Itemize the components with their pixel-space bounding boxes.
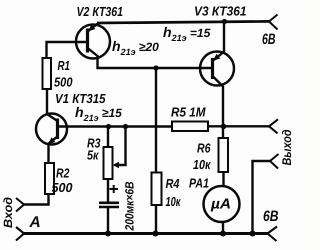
- label R6 10k: [193, 141, 212, 173]
- node capacitor rail junction: [105, 231, 111, 237]
- label V2 KT361: [77, 4, 124, 19]
- transistor V2: [76, 23, 110, 59]
- node V3 emitter junction: [222, 19, 227, 24]
- svg-text:Выход: Выход: [280, 129, 294, 165]
- label Vhod: [1, 197, 15, 228]
- terminal input common: [16, 227, 24, 241]
- svg-text:R1: R1: [58, 58, 71, 73]
- node meter rail junction: [220, 231, 226, 237]
- label 6V top-right: [262, 31, 276, 48]
- wire V2 collector to V3 base: [98, 55, 213, 68]
- terminal output common: [270, 154, 279, 169]
- svg-text:R5 1М: R5 1М: [171, 105, 207, 120]
- svg-text:5к: 5к: [87, 148, 100, 163]
- svg-text:V3 КТ361: V3 КТ361: [194, 4, 247, 19]
- wire bottom common rail: [24, 232, 268, 235]
- wire V1 base line: [58, 125, 173, 127]
- wire R2 to input terminal: [24, 194, 49, 205]
- wire V1 emitter to R2: [47, 144, 49, 163]
- terminal input signal: [16, 198, 24, 212]
- resistor R1: [43, 58, 52, 89]
- svg-text:500: 500: [52, 180, 74, 195]
- label 200mk 6V: [123, 181, 137, 231]
- wire V3 emitter to rail: [223, 22, 225, 53]
- label R3 5k: [87, 136, 101, 163]
- resistor R4: [152, 173, 162, 206]
- label R4 10k: [166, 176, 182, 209]
- svg-text:R6: R6: [197, 141, 211, 156]
- label PA1: [189, 176, 209, 191]
- svg-text:Вход: Вход: [1, 197, 15, 228]
- label V3 KT361: [194, 4, 247, 19]
- capacitor C1: [99, 203, 119, 207]
- wire meter to rail: [222, 222, 224, 234]
- node R4 top junction: [153, 65, 158, 70]
- terminal 6V bottom-right: [268, 227, 278, 242]
- svg-text:µА: µА: [210, 197, 231, 213]
- resistor R6: [219, 138, 229, 172]
- label h21e>=20: [112, 38, 159, 57]
- label node A: [29, 214, 41, 231]
- wire V2 base to R1: [47, 42, 88, 58]
- wire top +6V rail: [97, 21, 269, 23]
- wire output common: [253, 161, 271, 234]
- wire R6 to meter: [222, 172, 224, 186]
- svg-text:R2: R2: [56, 166, 70, 181]
- resistor R5: [172, 122, 208, 132]
- wire V3 collector down: [222, 86, 224, 138]
- wire R5 to output: [208, 125, 269, 127]
- svg-text:V2 КТ361: V2 КТ361: [77, 4, 124, 19]
- resistor R2: [45, 163, 54, 194]
- node output common rail junction: [250, 231, 256, 237]
- svg-text:А: А: [29, 214, 41, 231]
- svg-text:10к: 10к: [193, 157, 212, 172]
- wire capacitor to rail: [107, 207, 109, 234]
- wire R1 to V1 collector: [46, 89, 48, 115]
- wire R3 top branch: [107, 127, 109, 148]
- svg-text:10к: 10к: [166, 194, 182, 209]
- label R5 1M: [171, 105, 207, 120]
- label 6V bottom-right: [263, 208, 279, 225]
- label R2 500: [52, 166, 74, 196]
- svg-text:h21э ≥20: h21э ≥20: [112, 38, 159, 57]
- label Vyhod: [280, 129, 294, 165]
- node R4 bottom rail junction: [153, 231, 159, 237]
- label h21e=15: [163, 24, 211, 43]
- potentiometer R3: [104, 127, 126, 180]
- node V3 collector junction: [221, 124, 227, 130]
- meter PA1: [204, 186, 240, 222]
- capacitor C1 polarity plus: [110, 185, 119, 193]
- svg-text:6В: 6В: [263, 208, 279, 225]
- label V1 KT315: [55, 91, 106, 106]
- svg-text:6В: 6В: [262, 31, 276, 48]
- label h21e>=15: [75, 104, 122, 123]
- node R3 wiper junction: [123, 124, 128, 129]
- transistor V1: [36, 114, 67, 145]
- svg-text:R4: R4: [166, 176, 181, 191]
- label R1 500: [54, 58, 73, 90]
- transistor V3: [200, 52, 234, 87]
- svg-text:500: 500: [54, 75, 73, 90]
- svg-text:РА1: РА1: [189, 176, 209, 191]
- terminal 6V top-right: [269, 15, 278, 30]
- wire R4 bottom: [155, 205, 157, 234]
- terminal output signal: [269, 119, 278, 133]
- svg-text:h21э =15: h21э =15: [163, 24, 211, 43]
- svg-text:h21э ≥15: h21э ≥15: [75, 104, 122, 123]
- node R3 top junction: [106, 124, 111, 129]
- svg-text:200мк×6В: 200мк×6В: [123, 181, 137, 231]
- wire R3 to capacitor: [107, 179, 109, 202]
- wire R4 branch upper: [155, 68, 157, 173]
